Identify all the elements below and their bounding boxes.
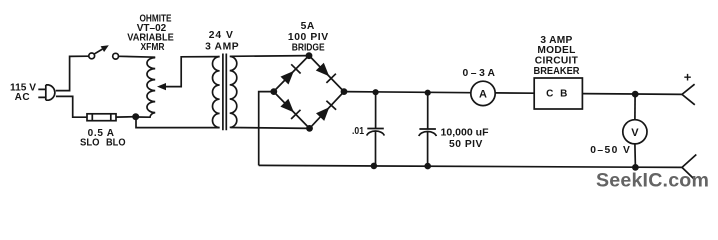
node C2 bottom — [424, 163, 431, 170]
capacitor C2 10,000 uF 50 PIV — [419, 93, 489, 167]
wire secondary top to bridge top — [231, 55, 310, 58]
fuse F1 0.5 A SLO BLO — [80, 114, 126, 149]
svg-text:24 V: 24 V — [209, 30, 234, 41]
node fuse junction — [132, 113, 139, 120]
svg-text:3 AMP: 3 AMP — [205, 42, 239, 53]
wire plug bottom to fuse — [56, 96, 87, 117]
label 115 V AC — [10, 83, 36, 104]
wire fuse to junction — [116, 116, 136, 118]
svg-text:A: A — [479, 89, 487, 101]
terminal plus output — [682, 70, 695, 105]
terminal minus output — [682, 155, 696, 179]
svg-text:10,000 uF: 10,000 uF — [441, 127, 489, 138]
variac T1 coil — [137, 58, 155, 118]
label 5A 100 PIV BRIDGE — [288, 21, 329, 54]
ammeter M1 0-3A — [462, 68, 497, 106]
node bridge left — [270, 88, 277, 95]
node C1 bottom — [371, 163, 378, 170]
node bridge bottom — [306, 125, 313, 132]
svg-text:BRIDGE: BRIDGE — [292, 43, 325, 54]
node bridge right — [341, 88, 348, 95]
svg-text:V: V — [631, 127, 639, 139]
transformer T2 secondary — [230, 56, 237, 127]
wire bottom rail — [259, 165, 682, 167]
label 3 AMP MODEL CIRCUIT BREAKER — [534, 35, 581, 77]
svg-text:XFMR: XFMR — [141, 42, 165, 53]
node bottom rail voltmeter junction — [632, 164, 639, 171]
bridge rectifier BR1 diamond — [274, 56, 344, 129]
svg-text:BREAKER: BREAKER — [534, 66, 581, 77]
node plus rail junction — [632, 91, 639, 98]
wire primary bottom to fuse junction — [136, 117, 220, 128]
diode D1 top-left — [281, 64, 301, 84]
transformer T2 primary — [213, 57, 220, 128]
svg-text:0–3A: 0–3A — [462, 68, 497, 79]
svg-text:SeekIC.com: SeekIC.com — [596, 170, 709, 192]
node C1 top — [373, 89, 379, 95]
variac wiper arrow — [157, 57, 220, 91]
switch S1 — [89, 45, 119, 59]
svg-text:BLO: BLO — [106, 138, 126, 149]
wire bridge right to plus terminal (top rail) — [344, 92, 682, 95]
circuit breaker CB box — [534, 78, 582, 109]
wire plug top to switch — [56, 56, 89, 90]
capacitor C1 .01 — [352, 92, 384, 166]
svg-text:.01: .01 — [352, 126, 364, 137]
node bridge top — [306, 52, 313, 59]
svg-text:SLO: SLO — [80, 138, 100, 149]
wire bridge left to bottom rail (minus) — [259, 92, 274, 166]
diode D3 bottom-left — [280, 99, 300, 119]
node C2 top — [425, 90, 431, 96]
wire secondary bottom to bridge bottom (crosses minus wire) — [231, 127, 310, 130]
label 24 V 3 AMP — [205, 30, 239, 52]
svg-text:C B: C B — [546, 89, 569, 100]
diode D4 bottom-right — [316, 101, 336, 121]
label OHMITE VT-02 VARIABLE XFMR — [127, 14, 174, 54]
plug P1 — [38, 85, 55, 100]
wire switch to variac top — [119, 55, 156, 58]
svg-text:AC: AC — [15, 92, 31, 103]
voltmeter M2 0-50 V — [590, 94, 647, 167]
svg-text:100 PIV: 100 PIV — [288, 32, 329, 43]
svg-text:+: + — [684, 70, 692, 85]
diode D2 top-right — [316, 63, 336, 83]
svg-text:CIRCUIT: CIRCUIT — [535, 55, 579, 66]
svg-text:5A: 5A — [301, 21, 315, 32]
transformer T2 core — [223, 54, 226, 131]
svg-text:50 PIV: 50 PIV — [449, 139, 483, 150]
svg-text:0–50 V: 0–50 V — [590, 145, 631, 156]
